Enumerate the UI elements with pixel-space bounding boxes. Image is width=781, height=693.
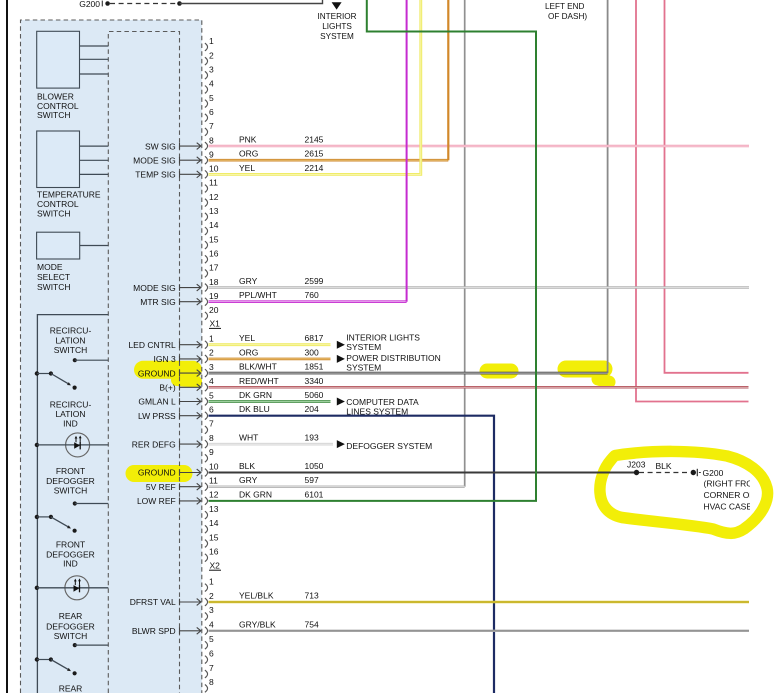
gray vertical wire at x=607 to BLK/WHT 1851 <box>607 0 609 373</box>
svg-text:2599: 2599 <box>305 276 324 286</box>
svg-text:2: 2 <box>209 348 214 358</box>
svg-text:PPL/WHT: PPL/WHT <box>239 290 277 300</box>
dashed wire from G200 to splice <box>110 3 177 5</box>
svg-text:1050: 1050 <box>305 461 324 471</box>
pin X1-16 <box>205 554 208 562</box>
svg-text:DEFOGGER: DEFOGGER <box>46 621 95 631</box>
svg-text:754: 754 <box>305 619 319 629</box>
svg-text:5V REF: 5V REF <box>146 482 176 492</box>
svg-text:SWITCH: SWITCH <box>54 345 88 355</box>
svg-text:G200: G200 <box>79 0 100 9</box>
junction dot (splice) <box>177 1 182 6</box>
wire DK GRN 5060 (X1 pin 5) <box>209 400 331 403</box>
svg-text:4: 4 <box>209 79 214 89</box>
svg-text:GROUND: GROUND <box>138 468 176 478</box>
pin S1-18 <box>205 284 208 292</box>
pin S1-12 <box>205 199 208 207</box>
svg-text:8: 8 <box>209 433 214 443</box>
svg-text:LED CNTRL: LED CNTRL <box>128 340 176 350</box>
pin S1-11 <box>205 185 208 193</box>
highlighter blob over GROUND label X1 pin 10 <box>134 465 184 482</box>
pin X2-5 <box>205 641 208 649</box>
svg-text:LATION: LATION <box>55 335 85 345</box>
pin X1-4 <box>205 383 208 391</box>
svg-text:2: 2 <box>209 50 214 60</box>
svg-text:16: 16 <box>209 248 219 258</box>
pin X1-1 <box>205 341 208 349</box>
pin X2-3 <box>205 613 208 621</box>
recirculation switch contacts <box>73 358 77 362</box>
svg-text:SELECT: SELECT <box>37 272 70 282</box>
svg-text:TEMPERATURE: TEMPERATURE <box>37 190 101 200</box>
highlighter blob over GROUND label X1 pin 3 <box>143 361 193 379</box>
G200 terminal tick <box>101 1 103 7</box>
svg-text:16: 16 <box>209 547 219 557</box>
recirculation indicator LED <box>66 433 90 457</box>
svg-text:5: 5 <box>209 390 214 400</box>
svg-text:INTERIOR: INTERIOR <box>317 12 356 21</box>
pin S1-3 <box>205 71 208 79</box>
pin S1-10 <box>205 170 208 178</box>
svg-text:GRY: GRY <box>239 276 258 286</box>
svg-text:GRY/BLK: GRY/BLK <box>239 619 276 629</box>
svg-text:BLK: BLK <box>656 461 672 471</box>
svg-text:SYSTEM: SYSTEM <box>346 363 381 373</box>
svg-text:DFRST VAL: DFRST VAL <box>130 597 176 607</box>
svg-text:14: 14 <box>209 518 219 528</box>
svg-text:19: 19 <box>209 291 219 301</box>
wire PNK 2145 (pin 8) <box>209 145 750 148</box>
wire WHT 193 (X1 pin 8) <box>209 443 334 446</box>
pin S1-16 <box>205 255 208 263</box>
junction dot at G200 (right) <box>691 470 696 475</box>
svg-text:18: 18 <box>209 277 219 287</box>
pin X2-6 <box>205 656 208 664</box>
svg-text:LATION: LATION <box>55 409 85 419</box>
svg-text:RER DEFG: RER DEFG <box>132 439 176 449</box>
svg-text:1: 1 <box>209 334 214 344</box>
svg-text:DEFOGGER SYSTEM: DEFOGGER SYSTEM <box>346 441 432 451</box>
svg-text:1: 1 <box>209 576 214 586</box>
front defogger indicator LED <box>65 576 89 600</box>
svg-text:FRONT: FRONT <box>56 539 85 549</box>
svg-text:5: 5 <box>209 93 214 103</box>
pin S1-7 <box>205 128 208 136</box>
svg-text:TEMP SIG: TEMP SIG <box>135 170 175 180</box>
svg-text:RECIRCU-: RECIRCU- <box>50 326 92 336</box>
wire YEL 6817 (X1 pin 1) <box>209 343 331 346</box>
wire GRY 597 (X1 pin 11) to gray vertical <box>209 485 465 488</box>
svg-text:2214: 2214 <box>305 163 324 173</box>
wire GRY 2599 (pin 18) <box>209 286 750 289</box>
wire from splice up to top edge <box>180 0 323 4</box>
svg-text:8: 8 <box>209 677 214 687</box>
svg-text:FRONT: FRONT <box>56 466 85 476</box>
svg-text:CONTROL: CONTROL <box>37 199 79 209</box>
svg-text:11: 11 <box>209 178 218 188</box>
svg-text:9: 9 <box>209 149 214 159</box>
splice J203 junction dot <box>634 470 639 475</box>
svg-text:YEL: YEL <box>239 333 255 343</box>
pin S1-5 <box>205 100 208 108</box>
svg-text:RED/WHT: RED/WHT <box>239 376 279 386</box>
wire ORG 2615 (pin 9) turning up <box>209 159 449 162</box>
svg-text:4: 4 <box>209 376 214 386</box>
gray vertical wire at x=465 to GRY 597 (pin X1-11) <box>464 0 466 487</box>
dashed wire BLK from J203 to G200 <box>639 472 691 474</box>
pin X1-8 <box>205 440 208 448</box>
highlighter blob 2 over BLK/WHT wire corner <box>566 361 604 378</box>
arrow + label DEFOGGER SYSTEM (X1-8) <box>337 440 345 448</box>
svg-text:5: 5 <box>209 634 214 644</box>
pin X1-2 <box>205 355 208 363</box>
arrow to INTERIOR LIGHTS SYSTEM (top) <box>332 2 342 9</box>
pin S1-1 <box>205 43 208 51</box>
svg-text:LINES SYSTEM: LINES SYSTEM <box>346 407 408 417</box>
rear defogger switch contacts <box>73 643 77 647</box>
pink vertical wire turning right at y=401 <box>636 0 749 402</box>
svg-text:REAR: REAR <box>59 684 83 693</box>
svg-text:2: 2 <box>209 591 214 601</box>
pin X2-8 <box>205 685 208 693</box>
svg-text:14: 14 <box>209 220 219 230</box>
pin S1-9 <box>205 156 208 164</box>
svg-text:IND: IND <box>63 419 78 429</box>
svg-text:193: 193 <box>305 433 319 443</box>
svg-text:ORG: ORG <box>239 149 258 159</box>
inner dashed box (module logic) <box>108 32 179 693</box>
pin S1-19 <box>205 298 208 306</box>
highlighter ring around J203 / G200 splice <box>600 451 768 533</box>
node G200 (right) label <box>703 468 765 511</box>
svg-text:X1: X1 <box>210 319 221 329</box>
svg-text:SYSTEM: SYSTEM <box>346 342 381 352</box>
svg-text:PNK: PNK <box>239 135 257 145</box>
svg-text:DK GRN: DK GRN <box>239 489 272 499</box>
svg-text:SYSTEM: SYSTEM <box>320 32 354 41</box>
wire GRY/BLK 754 (X2 pin 4) <box>209 630 750 632</box>
wire YEL 2214 (pin 10) turning up <box>209 0 421 174</box>
pin X1-5 <box>205 398 208 406</box>
pin X1-7 <box>205 426 208 434</box>
pin S1-8 <box>205 142 208 150</box>
svg-text:OF DASH): OF DASH) <box>548 12 587 21</box>
svg-text:13: 13 <box>209 206 219 216</box>
pin X2-2 <box>205 598 208 606</box>
svg-text:8: 8 <box>209 135 214 145</box>
pin X1-13 <box>205 511 208 519</box>
wire YEL/BLK 713 (X2 pin 2) <box>209 601 750 604</box>
svg-text:3: 3 <box>209 605 214 615</box>
svg-text:LW PRSS: LW PRSS <box>138 411 176 421</box>
front defogger switch contacts <box>73 501 77 505</box>
svg-text:BLWR SPD: BLWR SPD <box>132 626 176 636</box>
pin X1-11 <box>205 483 208 491</box>
pin X2-1 <box>205 584 208 592</box>
svg-text:10: 10 <box>209 461 219 471</box>
page left border line <box>6 0 8 693</box>
highlighter blob 1 over BLK/WHT wire <box>487 364 511 379</box>
svg-text:5060: 5060 <box>305 390 324 400</box>
svg-text:12: 12 <box>209 192 219 202</box>
wire DK GRN 6101 (X1 pin 12) looping to top edge <box>209 0 537 501</box>
svg-text:7: 7 <box>209 663 214 673</box>
svg-text:SWITCH: SWITCH <box>54 485 88 495</box>
svg-text:3: 3 <box>209 362 214 372</box>
svg-text:MTR SIG: MTR SIG <box>140 297 175 307</box>
pin X2-4 <box>205 627 208 635</box>
junction dot at G200 <box>105 1 110 6</box>
svg-text:GROUND: GROUND <box>138 368 176 378</box>
svg-text:6101: 6101 <box>305 489 324 499</box>
svg-text:DK BLU: DK BLU <box>239 404 270 414</box>
svg-text:1: 1 <box>209 36 214 46</box>
svg-text:11: 11 <box>209 476 218 486</box>
wire ORG 300 (X1 pin 2) <box>209 358 331 361</box>
svg-text:17: 17 <box>209 263 219 273</box>
svg-text:GMLAN L: GMLAN L <box>138 397 176 407</box>
pin X2-7 <box>205 670 208 678</box>
pin X1-9 <box>205 454 208 462</box>
svg-text:CORNER OF: CORNER OF <box>704 490 755 500</box>
svg-text:YEL/BLK: YEL/BLK <box>239 591 274 601</box>
G200 terminal tick (right) <box>696 469 698 476</box>
pin X1-15 <box>205 540 208 548</box>
svg-text:7: 7 <box>209 121 214 131</box>
temperature control switch <box>37 131 80 188</box>
svg-text:597: 597 <box>305 475 319 485</box>
pink vertical wire turning right at y=373 <box>665 0 749 373</box>
pin S1-15 <box>205 241 208 249</box>
svg-text:SWITCH: SWITCH <box>37 209 71 219</box>
svg-text:713: 713 <box>305 591 319 601</box>
svg-text:MODE: MODE <box>37 262 63 272</box>
svg-text:15: 15 <box>209 532 219 542</box>
svg-text:6: 6 <box>209 405 214 415</box>
svg-text:300: 300 <box>305 347 319 357</box>
svg-text:LEFT END: LEFT END <box>545 2 585 11</box>
svg-text:3: 3 <box>209 65 214 75</box>
wire PPL/WHT 760 (pin 19) turning up <box>209 300 407 303</box>
svg-text:REAR: REAR <box>59 611 83 621</box>
svg-text:COMPUTER DATA: COMPUTER DATA <box>346 397 419 407</box>
arrow + label COMPUTER DATA LINES SYSTEM (X1-5) <box>337 398 345 406</box>
svg-text:J203: J203 <box>627 459 646 469</box>
svg-text:RECIRCU-: RECIRCU- <box>50 399 92 409</box>
svg-text:POWER DISTRIBUTION: POWER DISTRIBUTION <box>346 353 440 363</box>
svg-text:9: 9 <box>209 447 214 457</box>
svg-text:DEFOGGER: DEFOGGER <box>46 476 95 486</box>
svg-text:760: 760 <box>305 290 319 300</box>
HVAC control module outer dashed box (light blue) <box>21 20 202 693</box>
pin S1-2 <box>205 57 208 65</box>
pin X1-14 <box>205 525 208 533</box>
wire DK BLU 204 (X1 pin 6) turning down to bottom <box>209 416 495 693</box>
svg-text:HVAC CASE): HVAC CASE) <box>704 501 755 511</box>
svg-text:4: 4 <box>209 620 214 630</box>
pin X1-3 <box>205 369 208 377</box>
svg-text:WHT: WHT <box>239 433 258 443</box>
svg-text:LIGHTS: LIGHTS <box>322 22 352 31</box>
svg-text:X2: X2 <box>210 560 221 570</box>
mode select switch <box>37 232 80 259</box>
pin X1-12 <box>205 497 208 505</box>
svg-text:G200: G200 <box>703 468 724 478</box>
wire BLK 1050 (X1 pin 10) to splice J203 <box>209 472 637 474</box>
svg-text:7: 7 <box>209 419 214 429</box>
svg-text:DK GRN: DK GRN <box>239 390 272 400</box>
svg-text:SWITCH: SWITCH <box>37 282 71 292</box>
wire BLK/WHT 1851 (X1 pin 3) turning up at x=607 <box>209 372 608 375</box>
svg-text:10: 10 <box>209 164 219 174</box>
pin S1-14 <box>205 227 208 235</box>
blower control switch <box>37 31 80 88</box>
svg-text:YEL: YEL <box>239 163 255 173</box>
pin S1-17 <box>205 270 208 278</box>
svg-text:MODE SIG: MODE SIG <box>133 155 176 165</box>
svg-text:SWITCH: SWITCH <box>54 631 88 641</box>
svg-text:2145: 2145 <box>305 135 324 145</box>
svg-text:1851: 1851 <box>305 362 324 372</box>
svg-text:6: 6 <box>209 648 214 658</box>
svg-text:BLK/WHT: BLK/WHT <box>239 362 277 372</box>
svg-text:LOW REF: LOW REF <box>137 496 176 506</box>
svg-text:B(+): B(+) <box>159 383 175 393</box>
svg-text:204: 204 <box>305 404 319 414</box>
svg-text:3340: 3340 <box>305 376 324 386</box>
svg-text:MODE SIG: MODE SIG <box>133 283 176 293</box>
svg-text:12: 12 <box>209 490 219 500</box>
svg-text:BLK: BLK <box>239 461 255 471</box>
pin S1-20 <box>205 312 208 320</box>
svg-text:IGN 3: IGN 3 <box>153 354 175 364</box>
svg-text:GRY: GRY <box>239 475 258 485</box>
pin X1-10 <box>205 469 208 477</box>
svg-text:15: 15 <box>209 234 219 244</box>
arrow + label POWER DISTRIBUTION SYSTEM (X1-2) <box>337 355 345 363</box>
pin S1-13 <box>205 213 208 221</box>
svg-text:IND: IND <box>63 559 78 569</box>
svg-text:6: 6 <box>209 107 214 117</box>
svg-text:13: 13 <box>209 504 219 514</box>
svg-text:20: 20 <box>209 305 219 315</box>
svg-text:ORG: ORG <box>239 347 258 357</box>
pin S1-4 <box>205 86 208 94</box>
svg-text:2615: 2615 <box>305 149 324 159</box>
pin X1-6 <box>205 412 208 420</box>
pin S1-6 <box>205 114 208 122</box>
svg-text:INTERIOR LIGHTS: INTERIOR LIGHTS <box>346 332 420 342</box>
arrow + label INTERIOR LIGHTS SYSTEM (X1-1) <box>337 341 345 349</box>
svg-text:SW SIG: SW SIG <box>145 141 176 151</box>
svg-text:6817: 6817 <box>305 333 324 343</box>
svg-text:SWITCH: SWITCH <box>37 110 71 120</box>
wire RED/WHT 3340 (X1 pin 4) <box>209 386 749 389</box>
internal ground bus wire <box>37 315 108 693</box>
